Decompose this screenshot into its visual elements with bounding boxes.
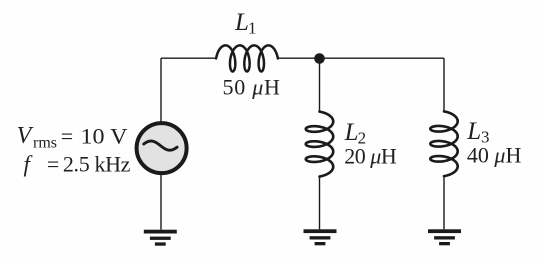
wire: top left horizontal (source to L1) [161, 57, 217, 59]
inductor L1 (horizontal coil) [216, 45, 278, 71]
svg-text:20 μH: 20 μH [344, 143, 397, 168]
wire: left vertical upper (top wire down to source) [160, 58, 162, 122]
wire: right vertical lower (L3 to ground) [443, 176, 445, 230]
ac source VS: circle body [137, 123, 187, 173]
svg-text:f=2.5 kHz: f=2.5 kHz [24, 151, 131, 176]
inductor L2 (vertical coil) [306, 112, 333, 177]
svg-text:Vrms=10 V: Vrms=10 V [17, 123, 128, 151]
wire: right vertical upper (top wire to L3) [443, 58, 445, 111]
ground (left, below source) [144, 230, 177, 246]
wire: top right horizontal (L1 to right branch) [278, 57, 445, 59]
ground (right, below L3) [428, 229, 461, 245]
node: junction dot [314, 53, 325, 64]
wire: middle vertical upper (node to L2) [319, 59, 321, 112]
svg-text:50 μH: 50 μH [223, 75, 281, 100]
svg-text:40 μH: 40 μH [467, 143, 522, 168]
ac source VS: sine wave [144, 141, 177, 150]
ground (middle, below L2) [304, 229, 337, 245]
inductor L3 (vertical coil) [430, 111, 457, 176]
svg-text:L1: L1 [234, 9, 257, 38]
wire: middle vertical lower (L2 to ground) [319, 176, 321, 229]
wire: left vertical lower (source to ground) [160, 174, 162, 230]
